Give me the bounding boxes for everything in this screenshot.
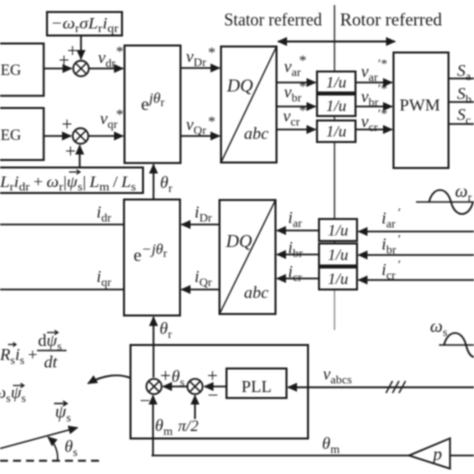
wire: icr from 1/u to lower DQ <box>277 278 319 280</box>
wire: box down to junction J1 <box>80 36 82 60</box>
svg-text:*: * <box>299 53 307 69</box>
svg-text:1/u: 1/u <box>326 75 346 92</box>
omega s sine wave symbol <box>439 344 474 346</box>
curved arrow from PLL box to stator flux equations <box>88 375 131 383</box>
svg-text:θs: θs <box>65 437 78 459</box>
wire: Lbox up to junction J2 <box>79 146 81 169</box>
svg-text:′*: ′* <box>378 56 387 71</box>
feed-forward box: -wr sigma Lr iqr <box>47 12 122 36</box>
wire: e^jth to DQ/abc, vDr* <box>181 67 220 69</box>
svg-text:−: − <box>140 391 151 412</box>
svg-text:ibr: ibr <box>382 235 397 257</box>
svg-text:abc: abc <box>244 124 269 143</box>
wire: 1/u to PWM, var'* <box>356 82 393 84</box>
summing junction J4 <box>187 379 202 394</box>
svg-text:dt: dt <box>44 353 59 372</box>
svg-text:var: var <box>361 62 378 84</box>
wire: theta m horizontal line <box>152 455 474 457</box>
wire: theta r from PLL J3 up into e^-jth <box>153 317 155 378</box>
svg-text:*: * <box>208 114 216 130</box>
regulator box REG (second, cut off at left) <box>0 108 44 160</box>
summing junction J1 <box>73 61 89 77</box>
svg-text:*: * <box>299 79 307 95</box>
wire: theta r from e^-jth up into e^jth <box>153 165 155 200</box>
svg-text:vdr: vdr <box>98 48 116 70</box>
svg-text:vcr: vcr <box>283 107 300 129</box>
svg-text:vbr: vbr <box>361 87 379 109</box>
svg-text:Rotor referred: Rotor referred <box>340 10 442 30</box>
wire: REG2 to junction J2 <box>44 135 71 137</box>
fraction bar <box>37 350 67 352</box>
svg-text:′: ′ <box>398 205 401 220</box>
svg-text:θm: θm <box>155 416 173 438</box>
svg-text:1/u: 1/u <box>328 271 348 288</box>
stator/rotor boundary divider line <box>334 5 336 288</box>
svg-text:′*: ′* <box>378 106 387 121</box>
svg-text:dψs: dψs <box>38 331 62 353</box>
wire: e^jth to DQ/abc, vQr* <box>181 135 220 137</box>
svg-text:vQr: vQr <box>186 115 206 137</box>
wire: iqr out to left edge <box>0 289 124 291</box>
svg-text:θr: θr <box>160 319 172 341</box>
wire: J1 to e^jth box, vdr* <box>89 68 123 70</box>
svg-text:+: + <box>207 366 218 387</box>
wire: PWM out Sc <box>449 123 474 125</box>
svg-text:idr: idr <box>97 203 112 225</box>
svg-text:1/u: 1/u <box>326 98 346 115</box>
svg-text:θm: θm <box>322 434 340 456</box>
svg-text:icr: icr <box>382 260 396 282</box>
wire: pi/2 up into J4 <box>194 396 196 419</box>
PLL inner box <box>227 369 287 399</box>
svg-text:DQ: DQ <box>225 231 252 251</box>
wire: PLL to junction J4 <box>205 386 227 388</box>
vector arrow over psi s label <box>54 401 67 406</box>
wire: ibr' from right edge to 1/u <box>359 254 474 256</box>
svg-text:π/2: π/2 <box>178 418 198 435</box>
svg-text:*: * <box>116 44 124 60</box>
svg-text:PWM: PWM <box>399 96 440 115</box>
wire: vabcs from right edge into PLL <box>288 386 474 388</box>
double-headed arrow between Stator and Rotor referred <box>278 41 395 43</box>
svg-text:*: * <box>299 103 307 119</box>
svg-text:vqr: vqr <box>100 109 118 131</box>
svg-text:icr: icr <box>288 262 302 284</box>
feed-forward box: Lr idr + wr |psi_s| Lm/Ls (cut off at left) <box>0 168 143 194</box>
svg-text:−: − <box>208 386 219 407</box>
summing junction J3 <box>146 379 161 394</box>
svg-text:Stator referred: Stator referred <box>224 10 322 30</box>
svg-text:ibr: ibr <box>288 238 303 260</box>
scaling block 1/u (a, lower) <box>319 219 357 241</box>
svg-text:ωs: ωs <box>430 316 448 339</box>
wire: PWM out Sb <box>449 101 474 103</box>
svg-text:θs: θs <box>172 367 185 389</box>
wire: iar' from right edge to 1/u <box>359 231 474 233</box>
wire: iar from 1/u to lower DQ <box>277 230 319 232</box>
wire: 1/u to PWM, vcr'* <box>356 129 393 131</box>
svg-text:iQr: iQr <box>195 267 212 289</box>
wire: 1/u to PWM, vbr'* <box>356 106 393 108</box>
PWM block <box>394 53 449 169</box>
PLL outer box <box>131 345 309 439</box>
rotation block e^{j theta r} <box>125 46 181 164</box>
svg-text:Sc: Sc <box>457 105 471 127</box>
wire: iQr from lower DQ to e^-jth <box>182 289 220 291</box>
svg-text:1/u: 1/u <box>328 223 348 240</box>
svg-text:ψs: ψs <box>55 402 71 425</box>
wire: icr' from right edge to 1/u <box>359 279 474 281</box>
svg-text:iar: iar <box>288 208 302 230</box>
wire: DQ to 1/u, vcr* <box>277 129 316 131</box>
upper DQ/abc transform block <box>221 47 277 163</box>
wire: PWM out Sa <box>449 78 474 80</box>
svg-text:1/u: 1/u <box>328 247 348 264</box>
svg-text:+: + <box>59 51 70 72</box>
wire: idr out to left edge <box>0 224 124 226</box>
lower DQ/abc transform block <box>220 200 276 314</box>
svg-text:vabcs: vabcs <box>323 365 352 387</box>
svg-text:iDr: iDr <box>195 203 212 225</box>
scaling block 1/u (c, lower) <box>319 268 357 290</box>
scaling block 1/u (a, upper) <box>317 72 356 93</box>
wire: DQ to 1/u, var* <box>277 82 316 84</box>
vector arrow over psi in L-box <box>69 170 80 175</box>
scaling block 1/u (b, upper) <box>317 95 356 117</box>
rotation block e^{-j theta r} <box>124 200 180 316</box>
svg-text:EG: EG <box>1 62 22 79</box>
regulator box REG (top, cut off at left) <box>0 44 44 96</box>
svg-text:θr: θr <box>160 173 172 195</box>
wire: theta m up into J3 <box>152 396 154 456</box>
wire: J2 to e^jth box, vqr* <box>88 135 123 137</box>
wire: ibr from 1/u to lower DQ <box>277 254 319 256</box>
svg-text:′*: ′* <box>378 81 387 96</box>
wire: REG1 to junction J1 <box>44 68 72 70</box>
svg-text:+: + <box>65 142 76 163</box>
summing junction J2 <box>73 128 89 144</box>
svg-text:EG: EG <box>1 127 22 144</box>
svg-text:abc: abc <box>244 283 269 302</box>
dashed reference line <box>0 460 101 462</box>
theta s angle arc <box>48 437 58 461</box>
svg-text:′: ′ <box>398 257 401 272</box>
svg-text:*: * <box>208 45 216 61</box>
wire: iDr from lower DQ to e^-jth <box>182 224 220 226</box>
svg-text:vcr: vcr <box>361 112 378 134</box>
svg-text:DQ: DQ <box>226 76 253 96</box>
svg-text:Sb: Sb <box>457 84 472 106</box>
svg-text:iqr: iqr <box>97 267 112 289</box>
stator flux vector arrow <box>0 428 78 449</box>
svg-text:iar: iar <box>382 209 396 231</box>
scaling block 1/u (b, lower) <box>319 244 357 266</box>
svg-text:p: p <box>431 444 442 464</box>
svg-text:PLL: PLL <box>241 377 271 396</box>
vector arrow over psi in numerator <box>47 330 58 335</box>
svg-text:ωr: ωr <box>455 181 472 204</box>
omega r sine wave symbol <box>416 201 474 203</box>
svg-text:Rsis +: Rsis + <box>0 345 37 367</box>
vector arrow over psi in eq2 <box>13 383 24 388</box>
svg-text:*: * <box>116 107 124 123</box>
gain triangle p <box>409 438 450 468</box>
svg-text:′: ′ <box>398 232 401 247</box>
wire: J4 to J3, theta s <box>163 386 187 388</box>
three-phase slashes on vabcs wire <box>386 381 406 393</box>
svg-text:vDr: vDr <box>186 47 206 69</box>
svg-text:Sa: Sa <box>457 61 472 83</box>
svg-text:1/u: 1/u <box>326 124 346 141</box>
bar over i in eq1 <box>8 343 16 347</box>
svg-text:+: + <box>62 115 73 136</box>
wire: DQ to 1/u, vbr* <box>277 106 316 108</box>
scaling block 1/u (c, upper) <box>317 121 356 143</box>
